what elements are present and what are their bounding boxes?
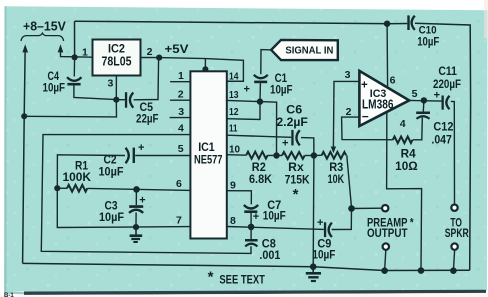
svg-text:C10: C10 [419, 25, 437, 37]
svg-text:4: 4 [178, 123, 184, 135]
wire: right supply arrow to IC2 pin 1 [61, 47, 93, 57]
wire: R3 right end down to preamp node [347, 155, 352, 207]
svg-text:6: 6 [390, 75, 396, 87]
svg-text:R3: R3 [329, 162, 343, 174]
svg-text:10: 10 [229, 143, 240, 155]
svg-text:C12: C12 [433, 122, 453, 134]
resistor R2 [246, 152, 276, 187]
wire: IC2 pin2 to +5V node [141, 57, 160, 59]
svg-text:C8: C8 [262, 239, 277, 251]
svg-text:+: + [139, 195, 145, 207]
svg-text:+8–15V: +8–15V [23, 20, 66, 34]
wire: C11 right, corner down to SPKR upper terminal [451, 101, 455, 204]
ground: C3 ground symbol [130, 227, 143, 242]
capacitor C12 [416, 112, 453, 147]
svg-text:78L05: 78L05 [102, 55, 132, 69]
node: pin5 junction dot [421, 97, 427, 103]
node: Rx-R3 junction dot [311, 152, 317, 158]
wire: IC1 pin9 corner down to C7 [227, 191, 252, 205]
node: R2-Rx junction dot [273, 152, 279, 158]
svg-text:C5: C5 [140, 102, 154, 114]
wire: left vertical below R1 down to pin7 row [57, 188, 190, 227]
node: rail dot under SPKR [450, 267, 457, 274]
svg-text:OUTPUT: OUTPUT [367, 228, 408, 240]
wire: preamp node to upper terminal [352, 207, 382, 209]
label: SEE TEXT note [208, 268, 265, 286]
node: IC2 pin1 junction dot [72, 54, 78, 60]
svg-text:1: 1 [178, 70, 184, 82]
wire: C8 stem from dot [250, 227, 252, 239]
wire: R4 right lead up to C12 [413, 118, 423, 140]
wire: +5V run to IC1 top and pin 14 [159, 58, 243, 82]
svg-text:10µF: 10µF [99, 212, 124, 224]
wire: LM386 pin6 stem up to +V rail [386, 24, 389, 88]
svg-text:11: 11 [229, 123, 238, 135]
svg-text:−: − [362, 109, 369, 123]
svg-text:5: 5 [178, 143, 184, 155]
wire: top rail right of C10 to top-right corner, down right side to bottom-right corner [415, 23, 471, 270]
svg-text:3: 3 [178, 106, 184, 118]
capacitor C1 [244, 73, 293, 96]
svg-text:+: + [317, 217, 323, 229]
capacitor C10 [407, 15, 439, 48]
svg-text:2.2µF: 2.2µF [276, 117, 308, 129]
svg-text:8: 8 [230, 215, 236, 227]
capacitor C3 [99, 195, 146, 225]
svg-text:C4: C4 [48, 71, 60, 83]
wiper arrowhead onto R3 [331, 147, 336, 154]
wire: IC1 pin13 to C1 bottom node [227, 100, 260, 101]
svg-text:.001: .001 [259, 250, 281, 262]
wire: corner above IC2 pin1 down to pin1 node [74, 21, 76, 57]
svg-text:+: + [138, 142, 144, 154]
node: rail dot under preamp [381, 267, 388, 274]
svg-text:6: 6 [176, 178, 182, 190]
wire: C4 column from pin1 node down, corner right to pin3 node [74, 57, 116, 99]
IC1 pin number labels [176, 70, 240, 227]
wire: pin4 node down, jog right, down to ground rail [387, 140, 422, 271]
wire: C1 node right then down to R2-Rx junction [260, 102, 277, 156]
wire: LM386 pin4 stem [386, 113, 388, 140]
svg-text:10µF: 10µF [312, 250, 335, 262]
wire: C3 stem bottom to pin7 wire [135, 212, 137, 227]
node: +5V junction dot [156, 55, 162, 61]
svg-text:1: 1 [82, 46, 88, 58]
wire: SPKR lower terminal to rail [453, 250, 454, 270]
IC2 78L05 regulator box [82, 40, 153, 90]
svg-text:10µF: 10µF [270, 84, 293, 96]
wire: C7 bottom stem to pin8 row [250, 212, 252, 227]
node: C3 top junction dot [133, 186, 140, 193]
svg-text:5: 5 [412, 88, 418, 100]
+5V label [165, 44, 189, 56]
terminal: TO SPKR lower ring [451, 243, 457, 249]
op-amp IC3 LM386 triangle [345, 69, 418, 130]
capacitor C8 [245, 239, 281, 262]
node: ground rail junction dot [310, 263, 317, 270]
wire: IC1 pin2 stub [170, 99, 191, 101]
wire: +V top rail from corner above IC2 to C10 [75, 21, 408, 24]
capacitor C7 [244, 200, 286, 223]
wire: left rail to IC2 pin3 ground link [24, 100, 116, 117]
svg-text:2: 2 [346, 106, 352, 118]
wire: bottom ground rail [23, 263, 470, 270]
svg-text:C3: C3 [105, 200, 118, 212]
svg-text:*: * [293, 186, 299, 203]
node: C7/C8 junction dot on pin8 row [248, 224, 255, 231]
capacitor C11 [433, 66, 461, 110]
label TO SPKR [445, 217, 470, 240]
svg-text:100K: 100K [63, 172, 92, 184]
svg-text:+: + [253, 211, 259, 223]
wire: R1 right to IC1 pin6 [87, 188, 190, 190]
wire: IC1 pin4 loop left, down and under IC to C8 bottom [41, 135, 251, 254]
svg-text:10K: 10K [328, 174, 345, 186]
capacitor C4 [43, 71, 82, 95]
wire: preamp lower terminal down to rail [385, 250, 386, 270]
IC1 NE577 box [190, 71, 226, 238]
wire: IC1 pin5 row through C2 to left vertical [57, 155, 190, 188]
svg-text:12: 12 [229, 106, 239, 118]
svg-text:SEE TEXT: SEE TEXT [219, 275, 265, 287]
wire: IC1 pin1 stub [170, 81, 190, 83]
wire: IC1 pin10 row to R2 [227, 154, 246, 157]
SIGNAL IN tag [271, 40, 338, 60]
svg-text:.047: .047 [431, 134, 452, 146]
terminal: PREAMP OUTPUT lower ring [383, 243, 389, 249]
svg-text:+: + [361, 79, 368, 91]
svg-text:SPKR: SPKR [445, 228, 470, 240]
svg-text:10Ω: 10Ω [395, 161, 418, 173]
svg-text:10µF: 10µF [417, 36, 439, 48]
wire: C9 right side up to preamp node [332, 209, 352, 230]
svg-text:C9: C9 [317, 238, 331, 250]
node: C1 bottom junction dot [257, 98, 263, 104]
node: +V rail dot at pin6 [384, 21, 390, 27]
node: dot on IC1 box top [202, 66, 208, 72]
supply label +8-15V with brace and arrows [21, 20, 66, 53]
node: preamp output junction dot [348, 205, 355, 212]
wire: IC1 pin8 row out to C9 [227, 227, 324, 230]
wire: LM386 pin3 from pot wiper [333, 81, 359, 146]
svg-text:3: 3 [108, 78, 114, 90]
node: C3 ground junction dot [133, 224, 139, 230]
svg-text:NE577: NE577 [194, 152, 223, 166]
node: junction dot on left rail [21, 113, 27, 119]
potentiometer R3 [314, 152, 346, 186]
wire: C6 right to corner down to Rx-R3 junction [301, 138, 314, 156]
wire: IC1 pin12 jog up to C1 node [227, 102, 260, 120]
wire: C3 stem top [135, 189, 137, 205]
svg-text:6.8K: 6.8K [249, 174, 273, 186]
svg-text:R2: R2 [252, 162, 266, 174]
wire: R4 left lead [387, 139, 393, 141]
wire: +5V node down to C5 then left to pin3 node [134, 58, 159, 100]
capacitor C2 [99, 142, 145, 178]
wire: stub from +5V run down to IC1 box top [204, 59, 206, 71]
svg-text:10µF: 10µF [263, 211, 286, 223]
svg-text:14: 14 [229, 71, 239, 83]
svg-text:10µF: 10µF [99, 166, 124, 178]
svg-text:+: + [434, 89, 440, 101]
wire: LM386 pin2 feedback loop to pin4 node [342, 117, 387, 140]
svg-text:C1: C1 [275, 73, 288, 85]
svg-text:C6: C6 [286, 104, 302, 116]
wire: IC1 pin3 stub [170, 117, 191, 119]
capacitor C9 [312, 217, 335, 262]
svg-text:+5V: +5V [165, 44, 189, 56]
node: IC2 pin3 / C5 junction dot [113, 97, 119, 103]
terminal: PREAMP OUTPUT upper ring [382, 205, 388, 211]
bottom photo frame line [0, 291, 488, 297]
wire: left supply rail (minus) from left arrow down to bottom rail [23, 46, 26, 263]
svg-text:7: 7 [176, 214, 182, 226]
svg-text:R4: R4 [401, 148, 417, 160]
svg-text:2: 2 [147, 46, 153, 58]
svg-text:B-1: B-1 [4, 293, 14, 297]
svg-text:3: 3 [345, 69, 351, 81]
ground: main ground symbol on bottom rail [306, 267, 321, 281]
svg-text:9: 9 [230, 179, 236, 191]
wire: IC2 pin3 stem [115, 76, 117, 100]
svg-text:220µF: 220µF [433, 79, 461, 91]
wire: IC1 pin14 label row (box to corner) [227, 80, 244, 82]
svg-text:2: 2 [178, 89, 184, 101]
svg-text:Rx: Rx [288, 162, 304, 174]
node: R1 left junction dot [54, 185, 60, 191]
svg-text:4: 4 [400, 118, 406, 130]
svg-text:13: 13 [229, 89, 239, 101]
wire: SIGNAL IN tip left and down through C1 [260, 50, 271, 102]
resistor Rx [277, 152, 314, 203]
wire: LM386 pin5 to C11 [409, 99, 441, 102]
svg-text:+: + [282, 137, 288, 149]
wire: IC1 pin11 row to C6 [227, 135, 291, 137]
node: rail dot under R4/C12 branch [418, 267, 425, 274]
svg-text:715K: 715K [285, 174, 311, 186]
capacitor C6 [276, 104, 308, 149]
resistor R1 [57, 160, 91, 191]
svg-text:*: * [208, 268, 214, 285]
wire: Rx-R3 junction down to ground rail [312, 156, 315, 267]
terminal: TO SPKR upper ring [451, 205, 457, 211]
svg-text:+: + [244, 84, 250, 96]
svg-text:SIGNAL IN: SIGNAL IN [285, 45, 333, 57]
wire: C5 left plate to IC2 pin3 node [116, 99, 125, 101]
svg-text:10µF: 10µF [43, 82, 66, 94]
label PREAMP OUTPUT [367, 217, 414, 240]
svg-text:22µF: 22µF [136, 114, 159, 126]
capacitor C5 [125, 92, 159, 125]
resistor R4 [393, 137, 418, 174]
svg-text:C11: C11 [438, 66, 457, 78]
svg-text:C2: C2 [104, 155, 117, 167]
wire: C12 top stem to pin5 node [422, 100, 425, 111]
svg-text:R1: R1 [75, 160, 89, 172]
